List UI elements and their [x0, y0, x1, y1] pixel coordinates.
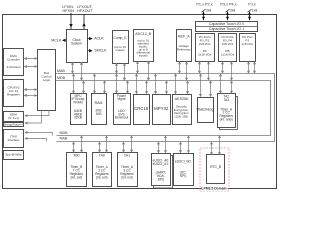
- svg-text:MDB: MDB: [57, 76, 66, 80]
- bus MAB (memory address bus, upper run + right vertical + lower run): [56, 74, 275, 142]
- wire TA0 to lower MAB: [99, 142, 101, 153]
- wire eUSCI_B to lower MDB: [188, 136, 190, 153]
- svg-text:Logic: Logic: [43, 78, 51, 82]
- wire port P1/P2 bidirectional arrow: [203, 12, 205, 21]
- RTC_B real-time clock block: [207, 155, 225, 184]
- svg-text:1x16 I/Os: 1x16 I/Os: [221, 52, 235, 56]
- wire EEM to bus control logic (upper): [25, 110, 49, 116]
- svg-text:SPI): SPI): [180, 174, 186, 178]
- svg-text:inputs): inputs): [139, 54, 148, 58]
- svg-text:Reference: Reference: [177, 48, 191, 52]
- wire port PJ to MDB: [254, 62, 256, 74]
- wire LFXOUT output arrow from Clock System: [83, 14, 85, 29]
- wire eUSCI_A to lower MDB: [165, 136, 167, 153]
- wire TA0 to lower MDB: [106, 136, 108, 153]
- svg-text:MCLK: MCLK: [51, 38, 62, 42]
- svg-text:(128, 256): (128, 256): [175, 115, 189, 119]
- wire ports P1 P2 to MAB: [199, 62, 201, 74]
- arrow ACLK out of clock system: [88, 38, 90, 40]
- bus MDB (memory data bus, upper run + right vertical + lower run): [56, 81, 271, 136]
- wire LFXIN input arrow into Clock System: [70, 13, 72, 30]
- wire TA2 TA3 to buses (addr): [220, 74, 222, 94]
- svg-text:2x8 I/Os: 2x8 I/Os: [222, 42, 234, 46]
- RAM block: [92, 94, 107, 125]
- MPU IP encapsulation FRAM block: [71, 94, 87, 125]
- svg-text:Watchdog: Watchdog: [197, 108, 214, 112]
- EEM block: [4, 112, 24, 122]
- wire port PJ bidirectional arrow: [249, 12, 251, 21]
- JTAG interface block: [4, 130, 24, 148]
- timer TA2 TA3 block: [218, 94, 236, 128]
- svg-text:ACLK: ACLK: [94, 37, 104, 41]
- wire watchdog to buses (data): [210, 81, 212, 97]
- I/O ports P1 P2 block: [196, 34, 215, 62]
- svg-text:PJ.x: PJ.x: [248, 2, 255, 6]
- wire CPU to bus control (data): [24, 95, 37, 97]
- watchdog block: [197, 98, 214, 123]
- clock system block: [67, 30, 88, 63]
- svg-text:2x8: 2x8: [206, 8, 212, 12]
- arrow MCLK out of clock system: [62, 39, 66, 42]
- svg-text:AES256: AES256: [175, 97, 188, 101]
- svg-text:SPI): SPI): [158, 177, 164, 181]
- svg-text:Interface: Interface: [8, 138, 20, 142]
- wire TA2 TA3 to buses (data): [231, 81, 233, 94]
- svg-text:TB0: TB0: [73, 154, 79, 158]
- svg-text:(int, ext): (int, ext): [121, 175, 133, 179]
- wire DMA to bus control (data): [24, 66, 37, 68]
- wire eUSCI_B to lower MAB: [180, 142, 182, 153]
- wire MPY32 to buses (data): [166, 81, 168, 94]
- wire eUSCI_A to lower MAB: [158, 142, 160, 153]
- timer TA2/TA3 stacked instance shadow box: [220, 97, 238, 130]
- svg-text:P1.x P2.x: P1.x P2.x: [196, 2, 212, 6]
- svg-text:MPY32: MPY32: [154, 106, 169, 111]
- I/O port PJ block: [240, 34, 256, 62]
- EnergyTrace label box: [4, 122, 24, 126]
- svg-text:1x16 I/Os: 1x16 I/Os: [198, 52, 212, 56]
- svg-text:Capacitive Touch I/O 0: Capacitive Touch I/O 0: [209, 22, 244, 26]
- svg-text:1x8 I/Os: 1x8 I/Os: [241, 42, 253, 46]
- svg-text:Capacitive Touch I/O 1: Capacitive Touch I/O 1: [209, 27, 244, 31]
- svg-text:Controller: Controller: [7, 57, 20, 61]
- CPUXV2 block: [4, 80, 24, 107]
- wire AES256 to buses (data): [187, 81, 189, 94]
- white mask under LPM3.5 label: [202, 186, 228, 191]
- eUSCI_A0 eUSCI_A1 block: [152, 154, 171, 186]
- wire TA1 to lower MAB: [123, 142, 125, 153]
- svg-text:eUSCI_B0:: eUSCI_B0:: [175, 159, 192, 163]
- svg-text:TA0: TA0: [99, 154, 105, 158]
- wire power mgmt to buses (addr): [116, 74, 118, 94]
- wire ADC12_B to MAB: [137, 61, 139, 73]
- svg-text:1x8: 1x8: [252, 8, 258, 12]
- REF_A voltage reference block: [177, 30, 192, 62]
- svg-text:Registers: Registers: [7, 92, 20, 96]
- svg-text:(int, ext): (int, ext): [71, 175, 83, 179]
- AES256 security block: [173, 95, 192, 125]
- wire AES256 to buses (addr): [175, 74, 177, 94]
- wire JTAG interface to MDB: [25, 133, 53, 136]
- device outline border: [3, 15, 277, 189]
- wire CPU to bus control (addr): [24, 89, 37, 91]
- comparator Comp_E block: [113, 31, 129, 64]
- svg-text:ADC12_B: ADC12_B: [135, 32, 152, 36]
- wire ports P1 P2 to MDB: [208, 62, 210, 81]
- svg-text:RTC_B: RTC_B: [210, 165, 222, 169]
- wire DMA to bus control (addr): [24, 58, 37, 60]
- wire MPY32 to buses (addr): [155, 74, 157, 94]
- wire JTAG interface to MAB: [25, 139, 47, 142]
- svg-text:CRC16: CRC16: [134, 106, 149, 111]
- svg-text:eUSCI_A1:: eUSCI_A1:: [153, 162, 170, 166]
- I/O ports P3 P4 block: [219, 34, 237, 62]
- wire port P3/P4 bidirectional arrow: [227, 12, 229, 21]
- wire TA1 to lower MDB: [131, 136, 133, 153]
- eUSCI_B0 block: [174, 154, 194, 186]
- svg-text:Comp_E: Comp_E: [113, 36, 127, 40]
- Spy-Bi-Wire block: [4, 151, 24, 160]
- svg-text:(int, ext): (int, ext): [96, 175, 108, 179]
- wire FRAM to buses (data): [83, 81, 85, 94]
- svg-text:P3.x P4.x: P3.x P4.x: [220, 2, 236, 6]
- svg-text:Brownout: Brownout: [115, 116, 129, 120]
- svg-text:3-Channel: 3-Channel: [7, 65, 21, 69]
- svg-text:inputs): inputs): [115, 48, 124, 52]
- svg-text:32KB: 32KB: [74, 116, 82, 120]
- wire clock system to MAB: [72, 62, 74, 73]
- timer TA0 block: [93, 153, 112, 187]
- svg-text:FRAM: FRAM: [73, 100, 82, 104]
- wire CRC16 to buses (addr): [136, 74, 138, 94]
- wire clock system to MDB: [81, 62, 83, 80]
- svg-text:MAB: MAB: [60, 137, 68, 141]
- wire power mgmt to buses (data): [127, 81, 129, 94]
- svg-text:Mgmt: Mgmt: [118, 97, 126, 101]
- svg-text:TA3: TA3: [223, 98, 229, 102]
- timer TB0 block: [67, 153, 87, 187]
- wire RAM to buses (data): [104, 81, 106, 94]
- divider capacitive touch IO box: [196, 26, 258, 28]
- CRC16 block: [134, 95, 150, 125]
- wire REF_A to MAB: [179, 62, 181, 74]
- wire FRAM to buses (addr): [73, 74, 75, 94]
- wire Comp_E to MAB: [116, 63, 118, 73]
- arrow SMCLK out of clock system: [88, 50, 90, 52]
- svg-text:EnergyTrace++: EnergyTrace++: [4, 122, 24, 126]
- svg-text:System: System: [71, 42, 82, 46]
- power management block: [114, 94, 131, 125]
- wire CRC16 to buses (data): [146, 81, 148, 94]
- svg-text:LPM3.5 Domain: LPM3.5 Domain: [201, 187, 226, 191]
- wire RTC_B to lower MDB: [219, 136, 221, 155]
- timer TA1 block: [118, 153, 138, 187]
- svg-text:1KB: 1KB: [95, 112, 101, 116]
- LPM3.5 domain dashed outline: [200, 148, 229, 191]
- svg-text:(int. only): (int. only): [220, 117, 233, 121]
- svg-text:2x8: 2x8: [230, 8, 236, 12]
- capacitive touch IO 0/1 block: [196, 22, 258, 32]
- svg-text:HFXOUT: HFXOUT: [77, 9, 93, 13]
- wire ports P3 P4 to MDB: [231, 62, 233, 81]
- wire ADC12_B to MDB: [148, 61, 150, 80]
- ADC12_B block: [134, 30, 154, 62]
- wire RTC_B to lower MAB: [211, 142, 213, 155]
- svg-text:RAM: RAM: [95, 101, 103, 105]
- wire REF_A to MDB: [186, 62, 188, 81]
- wire TB0 to lower MDB: [81, 136, 83, 153]
- DMA controller block: [4, 49, 24, 76]
- wire Comp_E to MDB: [124, 63, 126, 80]
- bus control logic block: [38, 50, 56, 111]
- svg-text:(S: 3+1): (S: 3+1): [8, 116, 19, 120]
- wire ports P3 P4 to MAB: [222, 62, 224, 74]
- svg-text:TA1: TA1: [124, 154, 130, 158]
- wire TB0 to lower MAB: [73, 142, 75, 153]
- svg-text:SMCLK: SMCLK: [94, 49, 107, 53]
- svg-text:MAB: MAB: [57, 69, 65, 73]
- svg-text:HFXIN: HFXIN: [62, 9, 74, 13]
- svg-text:Spy-Bi-Wire: Spy-Bi-Wire: [5, 153, 22, 157]
- svg-text:REF_A: REF_A: [178, 34, 190, 38]
- wire watchdog to buses (addr): [200, 74, 202, 97]
- wire port PJ to MAB: [248, 62, 250, 74]
- MPY32 multiplier block: [153, 95, 171, 125]
- eUSCI_A stacked instance shadow box: [154, 156, 173, 189]
- wire RAM to buses (addr): [94, 74, 96, 94]
- svg-text:MDB: MDB: [60, 131, 69, 135]
- wire EEM to bus control logic (lower): [25, 110, 42, 123]
- svg-text:2x8 I/Os: 2x8 I/Os: [199, 42, 211, 46]
